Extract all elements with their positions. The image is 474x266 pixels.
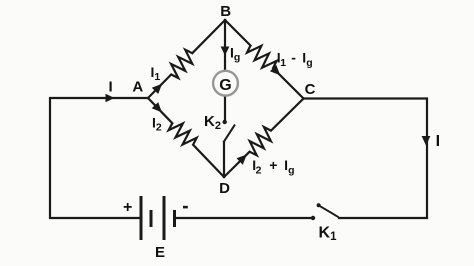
svg-text:I: I [109, 79, 113, 96]
svg-text:E: E [155, 244, 165, 261]
svg-text:A: A [132, 79, 143, 96]
svg-text:C: C [305, 81, 316, 98]
svg-text:I: I [436, 133, 440, 150]
svg-text:B: B [220, 3, 231, 20]
svg-text:+: + [123, 199, 132, 216]
svg-text:G: G [219, 77, 231, 94]
svg-text:D: D [219, 180, 230, 197]
